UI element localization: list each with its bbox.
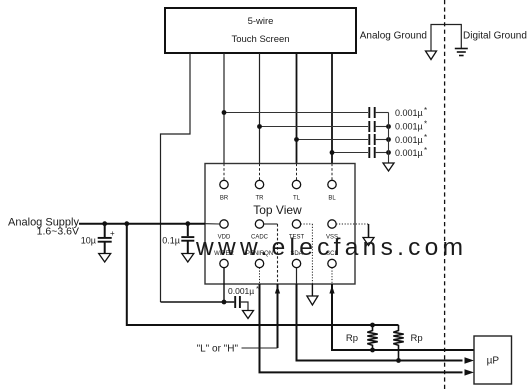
pin BL <box>328 180 337 201</box>
svg-text:Rp: Rp <box>411 333 423 344</box>
wire WIPER lead <box>223 268 225 302</box>
svg-text:Rp: Rp <box>346 333 358 344</box>
wire ground bridge <box>431 25 461 52</box>
wire SCL to uP <box>329 268 474 353</box>
svg-text:1.6~3.6V: 1.6~3.6V <box>37 226 79 238</box>
svg-text:Analog Ground: Analog Ground <box>360 31 427 42</box>
pin TR lead <box>259 164 261 181</box>
wire cap common to ground <box>388 113 390 164</box>
svg-text:Top View: Top View <box>253 203 302 217</box>
node supply/0.1u junction <box>185 221 190 226</box>
wire TEST to ground <box>301 224 313 296</box>
svg-text:BL: BL <box>328 196 336 202</box>
ground (0.1u) <box>182 254 194 263</box>
capacitor C2 plates <box>369 120 427 133</box>
wire PENIRQN to uP <box>260 268 475 376</box>
pin BR lead <box>223 164 225 181</box>
wire CADC to L/H <box>264 224 280 348</box>
svg-text:"L" or "H": "L" or "H" <box>197 343 239 354</box>
capacitor 0.1u <box>162 224 194 254</box>
resistor Rp1 <box>346 325 378 350</box>
node wiper junction <box>222 300 227 305</box>
svg-text:0.1µ: 0.1µ <box>162 236 180 246</box>
pin BR <box>220 180 229 201</box>
capacitor C4 0.001u tap wire <box>330 150 368 155</box>
svg-text:0.001µ: 0.001µ <box>395 148 423 158</box>
ground (caps, analog) <box>383 163 394 171</box>
ground (VSS) <box>363 238 374 246</box>
pin TL <box>292 180 300 201</box>
ground (analog, top) <box>426 51 437 60</box>
microprocessor uP <box>474 336 512 384</box>
analog/digital partition dashed line <box>444 0 446 390</box>
wire VSS to ground <box>336 224 368 238</box>
node Rp1 top <box>370 323 375 328</box>
pin TR <box>255 180 264 201</box>
pin SCL <box>326 251 338 267</box>
svg-text:*: * <box>424 106 427 115</box>
svg-text:Digital Ground: Digital Ground <box>463 31 527 42</box>
capacitor 10u (polarized) <box>81 224 115 254</box>
pin BL lead <box>331 164 333 181</box>
svg-text:TR: TR <box>256 196 265 202</box>
pin VDD <box>218 220 231 241</box>
wire supply rail <box>79 223 205 225</box>
pin VSS <box>326 220 338 241</box>
pin TEST <box>289 220 305 241</box>
resistor Rp2 <box>393 325 422 361</box>
ground (TEST) <box>307 296 318 305</box>
pin WIPER <box>214 251 234 267</box>
svg-text:*: * <box>424 120 427 129</box>
svg-text:0.001µ: 0.001µ <box>228 286 254 296</box>
svg-text:Touch Screen: Touch Screen <box>231 34 289 45</box>
ground (wiper cap) <box>243 311 254 319</box>
svg-text:10µ: 10µ <box>81 236 96 246</box>
node supply/10u junction <box>102 221 107 226</box>
capacitor C1 0.001u tap wire <box>222 110 368 115</box>
node supply/pullup junction <box>124 221 129 226</box>
svg-text:*: * <box>424 133 427 142</box>
svg-text:0.001µ: 0.001µ <box>395 108 423 118</box>
svg-text:0.001µ: 0.001µ <box>395 122 423 132</box>
svg-text:5-wire: 5-wire <box>248 16 274 27</box>
wire W4 (to TL) <box>296 53 298 164</box>
touch screen block <box>165 8 356 53</box>
wire W5 (to BL) <box>331 53 333 164</box>
wire W2 (to BR) <box>223 53 225 164</box>
wire wiper net <box>161 301 235 303</box>
IC U1 body (Top View) <box>205 164 355 285</box>
svg-text:µP: µP <box>487 356 500 367</box>
pin PENIRQN <box>246 251 273 267</box>
capacitor C1 plates <box>369 106 427 118</box>
wire pullup rail <box>127 224 399 325</box>
pin CADC <box>251 220 269 241</box>
svg-text:BR: BR <box>220 196 229 202</box>
wire W1 (wiper wire from touch screen, routed left) <box>161 53 191 302</box>
L or H label and wire <box>197 343 278 354</box>
capacitor C2 0.001u tap wire <box>257 124 368 129</box>
wire W3 (to TR) <box>259 53 261 164</box>
analog supply label <box>8 217 79 238</box>
svg-text:0.001µ: 0.001µ <box>395 135 423 145</box>
svg-text:*: * <box>424 146 427 155</box>
pin TL lead <box>296 164 298 181</box>
capacitor 0.001u (wiper) <box>228 284 259 311</box>
pin SDA <box>290 251 302 267</box>
wire supply to VDD pin <box>205 223 220 225</box>
capacitor C4 plates <box>369 146 427 158</box>
capacitor C3 0.001u tap wire <box>294 137 368 142</box>
ground (10u) <box>99 254 111 263</box>
svg-text:TL: TL <box>293 196 301 202</box>
wire SDA to uP <box>297 268 475 364</box>
svg-text:+: + <box>110 229 115 238</box>
capacitor C3 plates <box>369 133 427 145</box>
ground (digital earth) <box>455 49 468 56</box>
